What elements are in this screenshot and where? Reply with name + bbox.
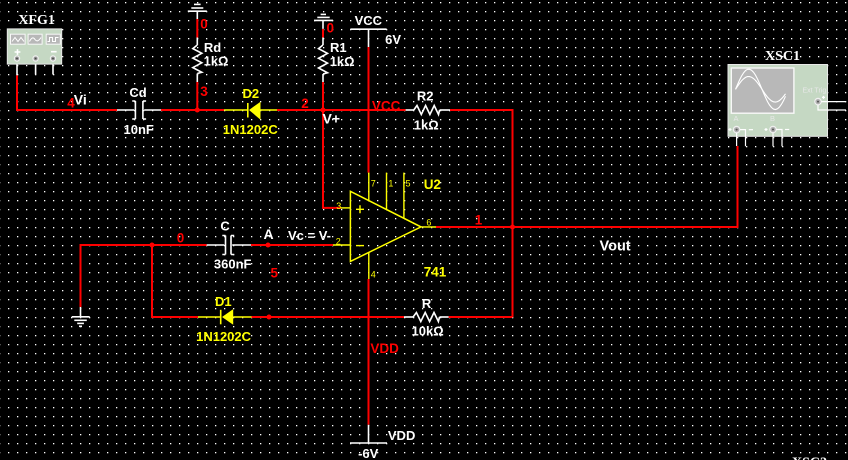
svg-text:1kΩ: 1kΩ [414,117,439,132]
svg-text:6: 6 [426,217,431,227]
svg-text:1N1202C: 1N1202C [196,329,252,344]
svg-text:0: 0 [327,21,335,36]
svg-text:1: 1 [388,179,393,189]
svg-text:U2: U2 [424,177,441,192]
svg-text:D1: D1 [215,294,232,309]
svg-text:VDD: VDD [388,428,415,443]
svg-text:C: C [220,219,230,234]
svg-text:R2: R2 [417,89,434,104]
svg-text:Vi: Vi [74,91,87,107]
svg-text:XFG1: XFG1 [18,13,55,28]
svg-text:XSC1: XSC1 [765,49,800,64]
svg-text:VDD: VDD [370,341,399,356]
svg-text:1kΩ: 1kΩ [330,54,355,69]
svg-text:1N1202C: 1N1202C [223,122,279,137]
svg-text:3: 3 [200,84,208,99]
svg-text:741: 741 [424,264,447,279]
svg-text:0: 0 [177,230,185,245]
svg-text:10kΩ: 10kΩ [412,323,444,338]
svg-text:Ext Trig: Ext Trig [803,88,827,95]
svg-text:0: 0 [200,17,208,32]
svg-text:A: A [264,226,274,242]
svg-text:Vc = V-: Vc = V- [288,228,331,243]
svg-text:1: 1 [475,213,483,228]
svg-text:-6V: -6V [358,446,379,460]
svg-text:7: 7 [371,179,376,189]
svg-text:A: A [734,114,739,123]
svg-text:5: 5 [271,266,279,281]
svg-text:VCC: VCC [372,98,401,113]
svg-text:R1: R1 [330,40,347,55]
svg-text:2: 2 [336,236,341,246]
svg-text:1kΩ: 1kΩ [204,54,229,69]
svg-text:Vout: Vout [600,238,631,254]
svg-text:B: B [770,114,775,123]
svg-text:V+: V+ [323,110,341,126]
svg-text:5: 5 [406,179,411,189]
svg-text:10nF: 10nF [124,122,154,137]
svg-text:Cd: Cd [129,85,146,100]
svg-text:D2: D2 [243,86,260,101]
svg-text:6V: 6V [385,32,401,47]
svg-text:XSC2: XSC2 [792,456,827,460]
svg-text:360nF: 360nF [214,257,252,272]
svg-text:4: 4 [371,270,376,280]
svg-text:VCC: VCC [355,13,383,28]
svg-text:R: R [422,296,432,311]
svg-text:2: 2 [301,96,309,111]
svg-text:3: 3 [336,201,341,211]
